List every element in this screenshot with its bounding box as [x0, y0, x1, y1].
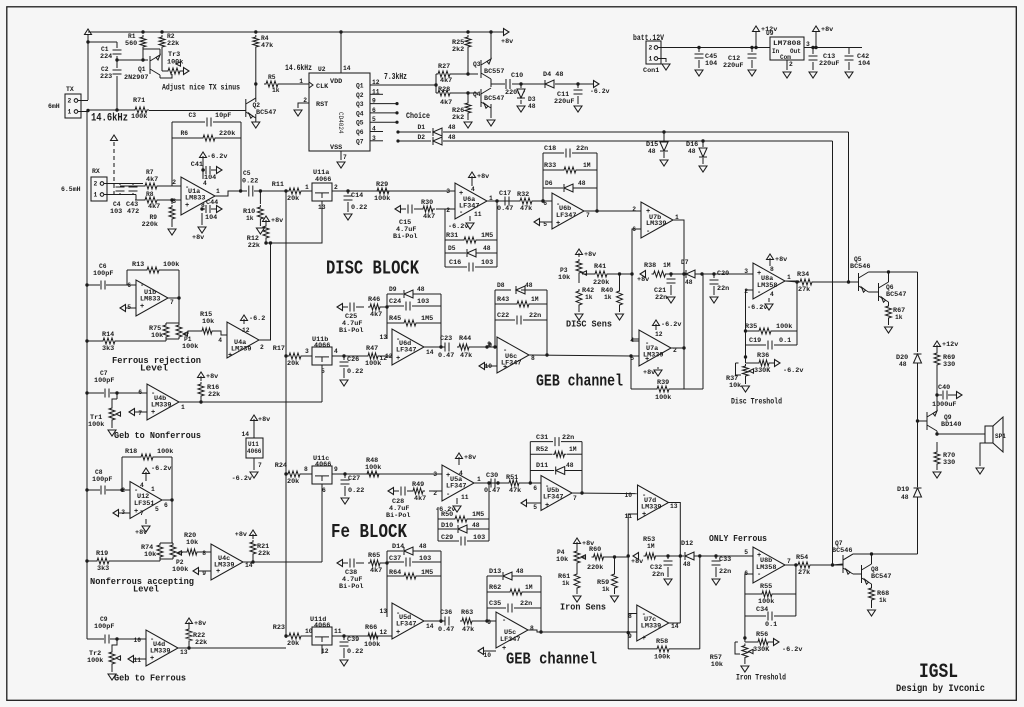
svg-text:2: 2 [334, 184, 338, 191]
svg-text:1: 1 [649, 56, 653, 63]
svg-text:R41: R41 [594, 263, 606, 271]
svg-text:C4: C4 [113, 201, 121, 208]
svg-text:100k: 100k [364, 641, 380, 649]
svg-text:10k: 10k [186, 539, 198, 547]
svg-text:0.47: 0.47 [484, 487, 500, 495]
svg-text:2: 2 [94, 181, 98, 188]
svg-text:220k: 220k [593, 279, 609, 287]
svg-text:R38: R38 [644, 262, 656, 270]
svg-text:1: 1 [68, 109, 72, 116]
svg-text:11: 11 [474, 211, 482, 218]
svg-text:22n: 22n [562, 434, 574, 442]
svg-text:4066: 4066 [314, 622, 330, 630]
svg-text:6: 6 [138, 389, 142, 396]
svg-text:+: + [503, 364, 507, 372]
svg-text:R33: R33 [544, 162, 556, 170]
svg-text:+8v: +8v [501, 38, 513, 46]
svg-text:10: 10 [624, 492, 632, 499]
svg-text:D9: D9 [389, 286, 397, 293]
svg-text:C2: C2 [101, 66, 109, 73]
svg-text:R44: R44 [459, 335, 471, 343]
svg-text:0.47: 0.47 [497, 205, 513, 213]
svg-text:Iron Sens: Iron Sens [560, 602, 606, 613]
svg-text:Iron Treshold: Iron Treshold [736, 673, 786, 683]
svg-text:220k: 220k [142, 221, 158, 229]
svg-text:R7: R7 [146, 169, 154, 176]
svg-text:4: 4 [218, 337, 222, 344]
svg-text:9: 9 [487, 619, 491, 626]
svg-text:+8v: +8v [643, 369, 655, 377]
svg-text:3k3: 3k3 [97, 565, 109, 573]
svg-text:20k: 20k [287, 195, 299, 203]
svg-text:10k: 10k [558, 274, 570, 282]
svg-text:-: - [757, 289, 761, 297]
svg-text:Bi-Pol: Bi-Pol [339, 327, 363, 335]
svg-text:Q4: Q4 [473, 91, 481, 98]
svg-text:R47: R47 [366, 345, 378, 353]
svg-text:R66: R66 [365, 624, 377, 632]
svg-text:1k: 1k [604, 294, 612, 301]
svg-text:Con1: Con1 [643, 67, 659, 75]
svg-text:Q8: Q8 [871, 566, 879, 573]
svg-text:3: 3 [433, 471, 437, 478]
svg-text:48: 48 [525, 282, 533, 289]
svg-text:R60: R60 [589, 546, 601, 554]
svg-text:D4 48: D4 48 [543, 71, 563, 79]
svg-text:R29: R29 [376, 181, 388, 189]
svg-text:Q5: Q5 [356, 120, 364, 127]
svg-text:D10: D10 [441, 522, 453, 530]
svg-text:4: 4 [471, 186, 475, 193]
svg-text:4k7: 4k7 [370, 567, 382, 575]
svg-text:Q6: Q6 [886, 284, 894, 291]
svg-text:4066: 4066 [315, 461, 331, 469]
svg-text:1M: 1M [569, 446, 577, 453]
svg-text:+8v: +8v [235, 531, 247, 539]
svg-text:48: 48 [578, 180, 586, 187]
svg-text:2: 2 [649, 45, 653, 52]
svg-text:100k: 100k [365, 360, 381, 368]
svg-text:220uF: 220uF [554, 98, 574, 106]
svg-text:Com: Com [780, 54, 791, 61]
svg-text:103: 103 [417, 298, 429, 306]
svg-text:C14: C14 [351, 192, 363, 200]
svg-text:2: 2 [744, 288, 748, 295]
svg-text:R2: R2 [167, 33, 175, 40]
svg-text:100k: 100k [182, 343, 198, 351]
svg-text:R30: R30 [421, 199, 433, 207]
svg-text:1M5: 1M5 [481, 232, 493, 240]
svg-text:4: 4 [140, 482, 144, 489]
svg-text:C24: C24 [389, 298, 401, 306]
svg-text:P3: P3 [560, 267, 568, 274]
svg-text:-6.2v: -6.2v [590, 88, 610, 95]
svg-text:RX: RX [92, 168, 100, 175]
svg-text:48: 48 [566, 462, 574, 469]
svg-text:6: 6 [533, 485, 537, 492]
svg-text:1: 1 [299, 78, 303, 85]
svg-text:Q1: Q1 [138, 66, 146, 73]
svg-text:U9: U9 [766, 30, 774, 37]
svg-text:C10: C10 [511, 72, 523, 80]
svg-text:+8v: +8v [206, 373, 218, 381]
svg-text:22n: 22n [717, 285, 729, 293]
svg-text:D3: D3 [528, 96, 536, 103]
svg-text:4: 4 [770, 291, 774, 298]
svg-text:+8v: +8v [821, 26, 833, 34]
svg-text:5: 5 [744, 549, 748, 556]
svg-text:R56: R56 [756, 631, 768, 639]
svg-text:C36: C36 [440, 609, 452, 617]
svg-text:D12: D12 [681, 540, 693, 548]
svg-text:R1: R1 [128, 33, 136, 40]
svg-text:2: 2 [632, 206, 636, 213]
svg-text:100k: 100k [655, 394, 671, 402]
svg-text:R62: R62 [489, 584, 501, 592]
svg-text:10: 10 [483, 652, 491, 659]
svg-text:0.47: 0.47 [438, 626, 454, 634]
svg-text:GEB channel: GEB channel [536, 373, 623, 392]
svg-text:Q5: Q5 [854, 256, 862, 263]
svg-text:220k: 220k [219, 130, 235, 138]
svg-text:0.1: 0.1 [765, 621, 777, 629]
svg-text:DISC BLOCK: DISC BLOCK [326, 258, 419, 280]
svg-text:R39: R39 [657, 379, 669, 387]
svg-text:12: 12 [321, 648, 329, 655]
svg-text:27k: 27k [798, 286, 810, 294]
svg-text:1: 1 [477, 476, 481, 483]
svg-text:3: 3 [744, 268, 748, 275]
svg-text:14: 14 [241, 431, 249, 438]
svg-text:D7: D7 [681, 259, 689, 266]
svg-text:14: 14 [671, 623, 679, 630]
svg-text:R23: R23 [273, 624, 285, 632]
svg-text:+: + [151, 409, 155, 417]
svg-text:14: 14 [426, 623, 434, 630]
svg-text:1000uF: 1000uF [932, 401, 956, 409]
svg-text:0.22: 0.22 [348, 487, 364, 495]
svg-text:R52: R52 [536, 446, 548, 454]
svg-text:47k: 47k [261, 42, 273, 50]
svg-text:+8v: +8v [194, 620, 206, 628]
svg-text:9: 9 [488, 342, 492, 349]
svg-text:C16: C16 [449, 259, 461, 267]
svg-text:Q7: Q7 [356, 138, 364, 145]
svg-text:6: 6 [543, 200, 547, 207]
svg-text:8: 8 [628, 613, 632, 620]
svg-text:-: - [446, 491, 450, 499]
svg-text:D11: D11 [536, 462, 548, 470]
svg-text:Choice: Choice [406, 111, 430, 121]
svg-text:Geb to Ferrous: Geb to Ferrous [114, 673, 186, 684]
svg-text:C27: C27 [348, 475, 360, 483]
svg-text:2N2907: 2N2907 [124, 74, 148, 82]
svg-text:-6.2v: -6.2v [783, 367, 803, 375]
svg-text:560: 560 [125, 40, 137, 48]
svg-text:330: 330 [943, 361, 955, 369]
svg-text:+: + [185, 202, 189, 210]
svg-text:D13: D13 [489, 568, 501, 576]
svg-text:D6: D6 [545, 180, 553, 187]
svg-text:1M: 1M [647, 543, 655, 550]
svg-text:LM339: LM339 [646, 220, 666, 228]
svg-text:3: 3 [446, 188, 450, 195]
svg-text:C6: C6 [99, 263, 107, 270]
svg-text:R19: R19 [96, 550, 108, 558]
svg-text:-: - [646, 228, 650, 236]
svg-text:0.1: 0.1 [779, 337, 791, 345]
svg-text:IGSL: IGSL [919, 661, 958, 684]
svg-text:0.22: 0.22 [347, 368, 363, 376]
svg-text:104: 104 [858, 60, 870, 68]
svg-text:+: + [545, 502, 549, 510]
svg-text:P1: P1 [184, 336, 192, 343]
svg-text:-6.2v: -6.2v [782, 646, 802, 654]
svg-text:R34: R34 [797, 271, 809, 279]
svg-text:6.5mH: 6.5mH [61, 186, 81, 193]
svg-text:R54: R54 [796, 554, 808, 562]
svg-text:48: 48 [683, 561, 691, 568]
svg-text:C40: C40 [938, 384, 950, 392]
svg-text:7: 7 [586, 212, 590, 219]
svg-text:10k: 10k [711, 661, 723, 669]
svg-text:6: 6 [127, 282, 131, 289]
svg-text:220k: 220k [587, 564, 603, 572]
svg-text:R35: R35 [745, 323, 757, 331]
svg-text:C9: C9 [100, 616, 108, 623]
svg-text:LM339: LM339 [231, 346, 251, 354]
svg-text:+8v: +8v [477, 173, 489, 181]
svg-text:P2: P2 [176, 559, 184, 566]
svg-text:R9: R9 [149, 214, 157, 221]
svg-text:R46: R46 [368, 296, 380, 304]
svg-text:220uF: 220uF [819, 60, 839, 68]
svg-text:2: 2 [260, 344, 264, 351]
svg-text:LF347: LF347 [459, 203, 479, 211]
svg-text:BC546: BC546 [832, 547, 852, 555]
svg-text:LM833: LM833 [140, 296, 160, 304]
svg-text:RST: RST [316, 101, 328, 109]
svg-text:100pF: 100pF [92, 476, 112, 484]
svg-text:LF351: LF351 [134, 500, 154, 508]
svg-text:+: + [134, 508, 138, 516]
svg-text:103: 103 [481, 259, 493, 267]
svg-text:48: 48 [448, 134, 456, 141]
svg-text:8: 8 [531, 355, 535, 362]
svg-text:+8v: +8v [464, 454, 476, 462]
svg-text:104: 104 [705, 60, 717, 68]
svg-text:10k: 10k [729, 382, 741, 390]
svg-text:223: 223 [100, 73, 112, 81]
svg-text:2k2: 2k2 [452, 114, 464, 122]
svg-text:R65: R65 [368, 552, 380, 560]
svg-text:C23: C23 [440, 335, 452, 343]
svg-text:1M5: 1M5 [421, 569, 433, 577]
svg-text:4066: 4066 [314, 342, 330, 350]
svg-text:R13: R13 [132, 261, 144, 269]
svg-text:4k7: 4k7 [440, 77, 452, 85]
svg-text:Q3: Q3 [473, 61, 481, 68]
svg-text:GEB channel: GEB channel [506, 651, 597, 670]
svg-text:R18: R18 [125, 448, 137, 456]
svg-text:4k7: 4k7 [440, 99, 452, 107]
svg-text:C22: C22 [497, 312, 509, 320]
svg-text:48: 48 [516, 568, 524, 575]
svg-text:47k: 47k [509, 487, 521, 495]
svg-text:330K: 330K [754, 367, 771, 375]
svg-text:R5: R5 [268, 74, 276, 81]
svg-text:C20: C20 [717, 270, 729, 278]
svg-text:22k: 22k [258, 550, 270, 558]
svg-text:D8: D8 [497, 282, 505, 289]
svg-text:22k: 22k [167, 40, 179, 48]
svg-text:R27: R27 [438, 63, 450, 71]
svg-text:2: 2 [789, 61, 793, 68]
svg-text:100pF: 100pF [94, 623, 114, 631]
svg-text:Disc Treshold: Disc Treshold [731, 397, 782, 407]
svg-text:Level: Level [133, 584, 159, 595]
svg-text:13: 13 [379, 608, 387, 615]
svg-text:0.22: 0.22 [351, 204, 367, 212]
svg-text:C3: C3 [188, 112, 196, 119]
svg-text:LF347: LF347 [396, 347, 416, 355]
svg-text:10k: 10k [151, 332, 163, 340]
svg-text:+8v: +8v [775, 256, 787, 264]
svg-text:22n: 22n [652, 571, 664, 579]
svg-text:10: 10 [133, 637, 141, 644]
svg-text:Q4: Q4 [356, 110, 364, 117]
svg-text:C26: C26 [347, 356, 359, 364]
svg-text:D19: D19 [897, 486, 909, 494]
svg-text:100k: 100k [131, 113, 147, 121]
svg-text:2k2: 2k2 [452, 46, 464, 54]
svg-text:100k: 100k [776, 323, 792, 331]
svg-text:R17: R17 [273, 345, 285, 353]
svg-text:7: 7 [258, 462, 262, 469]
svg-text:R8: R8 [146, 191, 154, 198]
svg-text:104: 104 [205, 214, 217, 222]
svg-text:100k: 100k [758, 598, 774, 606]
svg-text:LM339: LM339 [150, 648, 170, 656]
svg-text:VSS: VSS [330, 144, 342, 152]
svg-text:Design by Ivconic: Design by Ivconic [896, 683, 985, 695]
svg-text:1M5: 1M5 [421, 315, 433, 323]
svg-text:+8v: +8v [258, 416, 270, 424]
svg-text:P4: P4 [557, 549, 565, 556]
svg-text:224: 224 [100, 53, 112, 61]
svg-text:Out: Out [790, 48, 801, 55]
svg-text:-6.2v: -6.2v [747, 304, 767, 312]
svg-text:C17: C17 [499, 190, 511, 198]
svg-text:220uF: 220uF [723, 62, 743, 70]
svg-text:48: 48 [528, 103, 536, 110]
svg-text:10pF: 10pF [215, 112, 231, 120]
svg-text:+8v: +8v [584, 251, 596, 259]
svg-text:48: 48 [448, 124, 456, 131]
svg-text:Adjust nice TX sinus: Adjust nice TX sinus [162, 83, 240, 93]
svg-text:R45: R45 [389, 315, 401, 323]
svg-text:48: 48 [899, 361, 907, 368]
svg-text:100k: 100k [365, 464, 381, 472]
svg-text:1M: 1M [525, 584, 533, 591]
svg-text:D5: D5 [448, 245, 456, 252]
svg-text:14.6kHz: 14.6kHz [91, 113, 128, 125]
svg-text:22k: 22k [208, 391, 220, 399]
svg-text:R43: R43 [497, 296, 509, 304]
svg-text:22k: 22k [248, 242, 260, 250]
svg-text:100k: 100k [374, 195, 390, 203]
svg-text:100k: 100k [157, 448, 173, 456]
svg-text:LF347: LF347 [543, 494, 563, 502]
svg-text:1k: 1k [895, 314, 903, 321]
svg-text:-6.2v: -6.2v [661, 321, 681, 329]
svg-text:Bi-Pol: Bi-Pol [393, 233, 417, 241]
svg-text:-6.2: -6.2 [249, 315, 265, 323]
svg-text:1k: 1k [602, 586, 610, 593]
svg-text:100k: 100k [87, 657, 103, 665]
svg-text:BC557: BC557 [484, 68, 504, 76]
svg-text:+: + [228, 352, 232, 360]
svg-text:R24: R24 [275, 462, 287, 470]
svg-text:+: + [642, 635, 646, 643]
svg-text:TX: TX [66, 86, 74, 93]
svg-text:ONLY Ferrous: ONLY Ferrous [709, 533, 767, 544]
svg-text:+12v: +12v [942, 341, 958, 349]
svg-text:R58: R58 [656, 638, 668, 646]
svg-text:100k: 100k [163, 261, 179, 269]
svg-text:3: 3 [305, 348, 309, 355]
svg-text:R36: R36 [757, 352, 769, 360]
svg-text:4: 4 [459, 470, 463, 477]
svg-text:8: 8 [304, 466, 308, 473]
svg-text:100k: 100k [172, 566, 188, 574]
svg-text:1k: 1k [272, 87, 280, 94]
svg-text:3k3: 3k3 [102, 345, 114, 353]
svg-text:R11: R11 [272, 181, 284, 189]
svg-text:27k: 27k [798, 569, 810, 577]
svg-text:CD4024: CD4024 [337, 112, 344, 134]
svg-text:330: 330 [943, 459, 955, 467]
svg-text:C7: C7 [100, 370, 108, 377]
svg-text:4k7: 4k7 [414, 495, 426, 503]
svg-text:14.6kHz: 14.6kHz [285, 63, 312, 73]
svg-text:4066: 4066 [315, 176, 331, 184]
svg-text:C5: C5 [243, 170, 251, 177]
svg-text:+8v: +8v [271, 217, 283, 225]
svg-text:R71: R71 [133, 97, 145, 105]
svg-text:-6.2v: -6.2v [207, 153, 227, 161]
svg-text:48: 48 [483, 245, 491, 252]
svg-text:Fe BLOCK: Fe BLOCK [331, 521, 407, 543]
svg-text:CLK: CLK [316, 83, 329, 91]
svg-text:Q7: Q7 [835, 540, 843, 547]
svg-text:2: 2 [172, 179, 176, 186]
svg-text:R50: R50 [441, 511, 453, 519]
svg-text:48: 48 [417, 286, 425, 293]
svg-text:4: 4 [334, 348, 338, 355]
svg-text:14: 14 [343, 65, 351, 72]
svg-text:4k7: 4k7 [423, 213, 435, 221]
svg-text:BC546: BC546 [850, 263, 870, 271]
svg-text:-6.2v: -6.2v [448, 223, 468, 231]
svg-text:9: 9 [334, 466, 338, 473]
svg-text:C33: C33 [719, 556, 731, 564]
svg-text:11: 11 [133, 657, 141, 664]
svg-text:C41: C41 [191, 161, 203, 169]
svg-text:R55: R55 [760, 583, 772, 591]
svg-text:330K: 330K [753, 646, 770, 654]
svg-text:R4: R4 [261, 35, 269, 42]
